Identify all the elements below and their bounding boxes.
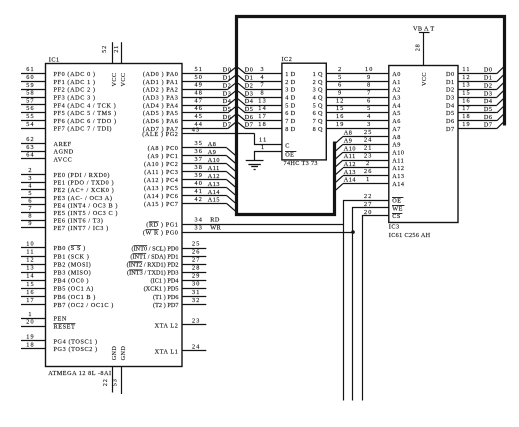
svg-text:17: 17 [258,113,267,120]
svg-text:6: 6 [367,97,371,104]
svg-text:(T1 ) PD6: (T1 ) PD6 [153,294,179,301]
IC3 pin name D3 [446,94,455,101]
IC1 pin 50 PA1 wire / net D1 bus entry [143,74,236,86]
svg-text:34: 34 [195,217,204,224]
IC2 pin name 3D [285,87,295,94]
IC1 pin 62 AREF wire [21,136,72,148]
svg-text:50: 50 [195,74,204,81]
svg-text:PE2 (AC+ / XCK0 ): PE2 (AC+ / XCK0 ) [54,187,115,194]
wire IC2 pin 12 5Q to IC3 A4 pin 6 [326,97,389,105]
net A9 wire to IC3 pin 24 [336,137,389,151]
svg-text:(A8 ) PC0: (A8 ) PC0 [148,145,179,152]
svg-text:2: 2 [366,160,370,167]
svg-text:20: 20 [364,209,373,216]
IC2 pin name C [285,143,290,150]
svg-text:35: 35 [195,140,204,147]
IC1 pin 2 PE0 wire [21,167,110,179]
svg-text:21: 21 [113,45,120,53]
IC1 pin 63 AGND wire [21,144,74,156]
IC2 pin name 6D [285,110,295,117]
IC1 pin 12 PB2 wire [21,257,91,269]
IC3 pin name A0 [392,71,401,78]
svg-text:21: 21 [364,144,373,151]
IC1 pin 16 PB6 wire [21,289,96,301]
IC1 pin 56 PF5 wire [21,105,117,117]
svg-text:22: 22 [364,193,373,200]
svg-text:17: 17 [462,105,471,112]
svg-text:20: 20 [26,318,35,325]
svg-text:A3: A3 [392,94,401,101]
IC1 pin 23 XTAL2 stub [155,317,207,329]
svg-text:(INT1 / SDA) PD1: (INT1 / SDA) PD1 [130,253,178,260]
IC1 pin 44 PA7 wire / net D7 bus entry [143,121,236,133]
IC1 pin 14 PB4 wire [21,273,89,285]
svg-text:D6: D6 [446,118,455,125]
svg-text:26: 26 [192,248,201,255]
svg-text:6: 6 [338,82,342,89]
svg-text:PF0 (ADC 0 ): PF0 (ADC 0 ) [54,71,96,78]
svg-text:A10: A10 [392,149,404,156]
svg-text:(A10 ) PC2: (A10 ) PC2 [144,161,179,168]
IC1 pin 51 PA0 wire / net D0 bus entry [143,66,236,78]
svg-text:PE4 (INT4 / OC3 B ): PE4 (INT4 / OC3 B ) [54,202,119,209]
svg-text:32: 32 [192,297,201,304]
IC1 pin 60 PF1 wire [21,74,96,86]
svg-text:A10: A10 [208,157,220,164]
svg-text:7: 7 [367,89,371,96]
IC2 part value 74HC373 [284,160,318,167]
svg-text:18: 18 [258,121,267,128]
svg-text:14: 14 [258,105,267,112]
IC1 pin 42 PC7 wire / net A15 bus entry [144,196,235,211]
svg-text:(RD ) PG1: (RD ) PG1 [146,222,178,229]
IC3 pin name A12 [392,165,404,172]
net A8 wire to IC3 pin 25 [336,129,389,143]
svg-text:GND: GND [111,346,118,361]
svg-text:D5: D5 [446,110,455,117]
IC2 pin name 7D [285,118,295,125]
IC1 pin 54 PF7 wire [21,121,112,133]
IC3 pin 12 D1 wire / bus entry [458,74,504,82]
svg-text:64: 64 [26,151,35,158]
svg-text:D7: D7 [446,126,455,133]
IC3 pin 18 D6 wire / bus entry [458,113,504,121]
svg-text:25: 25 [364,129,373,136]
svg-text:A5: A5 [392,110,401,117]
svg-text:9: 9 [28,220,32,227]
svg-text:63: 63 [26,144,35,151]
net A13 wire to IC3 pin 26 [336,168,389,182]
IC1 pin 25 PD0 stub [131,240,206,252]
svg-text:VB A T: VB A T [413,25,435,32]
svg-text:10: 10 [26,240,35,247]
IC3 pin name A9 [392,142,401,149]
svg-text:PE3 (AC- / OC3 A): PE3 (AC- / OC3 A) [54,195,113,202]
IC2 pin name 7Q [313,118,323,125]
IC3 pin name D7 [446,126,455,133]
svg-text:A14: A14 [392,181,404,188]
svg-text:15: 15 [462,89,471,96]
svg-text:D5: D5 [484,106,493,113]
svg-text:A7: A7 [392,126,401,133]
svg-text:A13: A13 [392,173,404,180]
IC1 pin 38 PC3 wire / net A11 bus entry [144,164,235,179]
svg-text:15: 15 [336,105,345,112]
IC1 pin 10 PB0 wire [21,240,86,252]
svg-text:A14: A14 [344,177,356,184]
svg-text:PB4 (OC0 ): PB4 (OC0 ) [54,278,90,285]
IC3 pin 11 D0 wire / bus entry [458,66,504,74]
svg-text:PB1 (SCK ): PB1 (SCK ) [54,253,90,260]
svg-text:D1: D1 [484,75,493,82]
svg-text:C: C [285,143,290,150]
svg-text:19: 19 [336,121,345,128]
svg-text:D2: D2 [446,87,455,94]
wire IC2 pin 16 7Q to IC3 A6 pin 4 [326,113,389,120]
svg-text:(T2 ) PD7: (T2 ) PD7 [153,302,179,309]
svg-text:A10: A10 [344,145,356,152]
svg-text:D0: D0 [484,67,493,74]
IC2 pin name 1Q [313,71,323,78]
IC1 pin 28 PD3 stub [127,265,206,277]
svg-text:3: 3 [260,66,264,73]
svg-text:VCC: VCC [120,73,127,87]
IC1 pin 20 <tspan wire [21,318,75,330]
svg-text:4 D: 4 D [285,94,295,101]
svg-text:(INT3 / TXD1) PD3: (INT3 / TXD1) PD3 [127,270,178,277]
IC1 pin 13 PB3 wire [21,265,91,277]
IC1 pin 26 PD1 stub [130,248,206,260]
svg-text:1 Q: 1 Q [313,71,323,78]
svg-text:PF2 (ADC 2 ): PF2 (ADC 2 ) [54,87,96,94]
junction WR / WE [351,230,355,234]
svg-text:5 D: 5 D [285,102,295,109]
IC1 pin 4 PE2 wire [21,182,114,194]
svg-text:D4: D4 [245,98,254,105]
IC3 part value IC61C256AH [389,232,431,239]
IC1 pin 41 PC6 wire / net A14 bus entry [144,188,235,203]
IC3 pin 19 D7 wire / bus entry [458,121,504,129]
IC1 pin 32 PD7 stub [153,297,206,309]
svg-text:A12: A12 [344,161,356,168]
svg-text:A4: A4 [392,102,401,109]
net D3 wire to IC2 4D pin 8 [238,89,282,97]
svg-text:22: 22 [102,378,109,386]
svg-text:AVCC: AVCC [54,156,73,163]
svg-text:D6: D6 [223,114,232,121]
net D4 wire to IC2 5D pin 13 [238,97,282,105]
net D6 wire to IC2 7D pin 17 [238,113,282,121]
svg-text:A12: A12 [208,173,220,180]
IC1 pin 27 PD2 stub [127,256,207,268]
svg-text:A9: A9 [392,142,401,149]
svg-text:RESET: RESET [54,323,76,330]
net D1 wire to IC2 2D pin 4 [238,74,282,82]
svg-text:D4: D4 [446,102,455,109]
IC1 pin 11 PB1 wire [21,248,89,260]
svg-text:WR: WR [210,224,221,231]
svg-text:42: 42 [195,196,204,203]
svg-text:37: 37 [195,156,204,163]
svg-text:AREF: AREF [54,141,72,148]
svg-text:(A11 ) PC3: (A11 ) PC3 [144,169,178,176]
IC3 pin name A4 [392,102,401,109]
wire IC2 pin 9 4Q to IC3 A3 pin 7 [326,89,389,97]
svg-text:ATMEGA 12 8L -8AI: ATMEGA 12 8L -8AI [48,370,111,377]
svg-text:(AD3 ) PA3: (AD3 ) PA3 [143,94,179,101]
svg-text:19: 19 [462,121,471,128]
svg-text:IC61 C256 AH: IC61 C256 AH [389,232,431,239]
ground [246,161,264,170]
svg-text:PE1 (PDO / TXD0 ): PE1 (PDO / TXD0 ) [54,180,115,187]
svg-text:D3: D3 [245,90,254,97]
IC2 pin name 5Q [313,102,323,109]
IC3 pin 15 D3 wire / bus entry [458,89,504,97]
svg-text:17: 17 [26,297,35,304]
svg-text:PB6 (OC1 B ): PB6 (OC1 B ) [54,294,96,301]
svg-text:11: 11 [26,248,34,255]
IC3 pin name A3 [392,94,401,101]
svg-text:4: 4 [260,74,264,81]
svg-text:3: 3 [28,175,32,182]
svg-text:A11: A11 [208,165,220,172]
IC1 pin 47 PA4 wire / net D4 bus entry [143,97,236,109]
IC1 pin 17 PB7 wire [21,297,114,309]
svg-text:51: 51 [195,66,204,73]
IC3 CS pin 20 wire [363,209,389,401]
IC1 pin 15 PB5 wire [21,281,94,293]
svg-text:23: 23 [364,152,373,159]
svg-text:4 Q: 4 Q [313,94,323,101]
svg-text:48: 48 [195,89,204,96]
svg-text:D0: D0 [245,67,254,74]
svg-text:D6: D6 [245,114,254,121]
IC1 pin 29 PD4 stub [151,273,207,285]
svg-text:OE: OE [285,152,294,159]
svg-text:PF6 (ADC 6 / TDO ): PF6 (ADC 6 / TDO ) [54,118,117,125]
svg-text:A8: A8 [392,134,401,141]
svg-text:19: 19 [26,333,35,340]
IC2 pin name 8Q [313,126,323,133]
svg-text:D4: D4 [484,98,493,105]
IC3 pin name A6 [392,118,401,125]
svg-text:PB3 (MISO): PB3 (MISO) [54,270,92,277]
svg-text:16: 16 [26,289,35,296]
svg-text:27: 27 [192,256,201,263]
IC3 pin name A1 [392,79,401,86]
svg-text:D6: D6 [484,114,493,121]
IC2 OE pin 1 wire to ground [255,144,282,160]
svg-text:6: 6 [28,197,32,204]
svg-text:56: 56 [26,105,35,112]
IC1 pin 18 PG3 wire [21,341,98,353]
svg-text:PE5 (INT5 / OC3 C ): PE5 (INT5 / OC3 C ) [54,210,119,217]
IC1 pin 55 PF6 wire [21,113,117,125]
svg-text:61: 61 [26,66,35,73]
IC1 pin 45 PA6 wire / net D6 bus entry [143,113,236,125]
svg-text:29: 29 [192,273,201,280]
svg-text:2 D: 2 D [285,79,295,86]
svg-text:7 D: 7 D [285,118,295,125]
svg-text:A13: A13 [208,181,220,188]
svg-text:24: 24 [364,137,373,144]
svg-text:D5: D5 [223,106,232,113]
IC3 pin name CS [392,213,402,220]
IC2 pin name 4D [285,94,295,101]
svg-text:1: 1 [28,311,32,318]
svg-text:PB2 (MOSI): PB2 (MOSI) [54,261,92,268]
svg-text:25: 25 [192,240,201,247]
IC3 WE pin 27 wire (to WR) [353,201,389,401]
svg-text:46: 46 [195,105,204,112]
svg-text:PF5 (ADC 5 / TMS ): PF5 (ADC 5 / TMS ) [54,110,117,117]
svg-text:D2: D2 [484,82,493,89]
svg-text:28: 28 [192,265,201,272]
svg-text:53: 53 [111,378,118,386]
svg-text:D0: D0 [446,71,455,78]
svg-text:D2: D2 [223,82,232,89]
IC1 pin 31 PD6 stub [153,289,206,301]
IC2 pin name 2D [285,79,295,86]
svg-text:D5: D5 [245,106,254,113]
svg-text:A8: A8 [344,130,353,137]
net A12 wire to IC3 pin 2 [336,160,389,174]
IC1 pin 36 PC1 wire / net A9 bus entry [148,148,236,163]
svg-text:D2: D2 [245,82,254,89]
IC1 pin 40 PC5 wire / net A13 bus entry [144,180,235,195]
svg-text:7: 7 [28,205,32,212]
svg-text:D1: D1 [223,75,232,82]
svg-text:(W R ) PG0: (W R ) PG0 [143,229,179,236]
svg-text:12: 12 [336,97,345,104]
svg-text:24: 24 [192,343,201,350]
svg-text:27: 27 [364,201,373,208]
svg-text:36: 36 [195,148,204,155]
IC2 pin name 8D [285,126,295,133]
IC1 pin 7 PE5 wire [21,205,118,217]
svg-text:6 Q: 6 Q [313,110,323,117]
IC3 pin name A10 [392,149,404,156]
svg-text:6 D: 6 D [285,110,295,117]
svg-text:(IC1 ) PD4: (IC1 ) PD4 [151,278,179,285]
IC1 pin 19 PG4 wire [21,333,98,345]
svg-text:12: 12 [462,74,471,81]
svg-text:A14: A14 [208,189,220,196]
svg-text:31: 31 [192,289,201,296]
svg-text:RD: RD [210,217,220,224]
IC3 VCC label [421,72,428,86]
svg-text:(AD4 ) PA4: (AD4 ) PA4 [143,102,179,109]
svg-text:A11: A11 [392,157,404,164]
IC2 pin name 2Q [313,79,323,86]
svg-text:8: 8 [28,213,32,220]
svg-text:30: 30 [192,281,201,288]
svg-text:47: 47 [195,97,204,104]
latch IC2 74HC373 body [282,56,327,160]
svg-text:54: 54 [26,121,35,128]
IC1 pin 8 PE6 wire [21,213,103,225]
svg-text:(AD1 ) PA1: (AD1 ) PA1 [143,79,179,86]
svg-text:PE0 (PDI / RXD0): PE0 (PDI / RXD0) [54,172,111,179]
IC1 VCC pin 52 stub [101,42,118,86]
IC2 pin name 6Q [313,110,323,117]
svg-text:57: 57 [26,97,35,104]
svg-text:26: 26 [364,168,373,175]
svg-text:8: 8 [367,82,371,89]
svg-text:A2: A2 [392,87,401,94]
svg-text:D1: D1 [446,79,455,86]
svg-text:WE: WE [392,205,403,212]
net D0 wire to IC2 1D pin 3 [238,66,282,74]
svg-text:PG3 (TOSC2 ): PG3 (TOSC2 ) [54,346,98,353]
svg-text:(INT0 / SCL) PD0: (INT0 / SCL) PD0 [131,245,178,252]
IC1 pin 24 XTAL1 stub [155,343,207,355]
wire IC2 pin 5 2Q to IC3 A1 pin 9 [326,74,389,82]
svg-text:(AD2 ) PA2: (AD2 ) PA2 [143,87,179,94]
IC3 pin name D2 [446,87,455,94]
svg-text:7: 7 [260,82,264,89]
svg-text:13: 13 [258,97,267,104]
wire IC2 pin 15 6Q to IC3 A5 pin 5 [326,105,389,112]
svg-text:5: 5 [338,74,342,81]
IC1 pin 43 PG2 ALE wire to IC2 C pin 11 [142,126,281,144]
svg-text:52: 52 [101,45,108,53]
svg-text:PB0 (S S ): PB0 (S S ) [54,245,86,252]
svg-text:AGND: AGND [54,149,74,156]
IC1 pin 64 AVCC wire [21,151,72,163]
svg-text:15: 15 [26,281,35,288]
svg-text:D3: D3 [446,94,455,101]
IC2 pin name 4Q [313,94,323,101]
svg-text:10: 10 [365,66,374,73]
svg-text:A6: A6 [392,118,401,125]
wire IC2 pin 19 8Q to IC3 A7 pin 3 [326,121,389,129]
svg-text:VCC: VCC [111,73,118,87]
svg-text:VCC: VCC [421,72,428,86]
IC3 pin name D1 [446,79,455,86]
svg-text:D7: D7 [484,122,493,129]
svg-text:38: 38 [195,164,204,171]
svg-text:(AD6 ) PA6: (AD6 ) PA6 [143,118,179,125]
svg-text:2 Q: 2 Q [313,79,323,86]
IC3 pin 17 D5 wire / bus entry [458,105,504,113]
IC1 pin 58 PF3 wire [21,90,96,102]
svg-text:74HC T3 73: 74HC T3 73 [284,160,318,167]
svg-text:13: 13 [26,265,35,272]
sram IC3 61C256AH body [389,66,458,231]
IC1 pin 34 PG1 RD wire to IC3 OE net [146,217,343,229]
svg-text:43: 43 [192,126,201,133]
svg-text:28: 28 [414,44,421,52]
svg-text:PB7 (OC2 / OC1C ): PB7 (OC2 / OC1C ) [54,302,114,309]
wire IC2 pin 2 1Q to IC3 A0 pin 10 [326,66,389,74]
svg-text:13: 13 [462,82,471,89]
IC1 pin 46 PA5 wire / net D5 bus entry [143,105,236,117]
IC3 pin name A5 [392,110,401,117]
svg-text:PB5 (OC1 A): PB5 (OC1 A) [54,286,94,293]
svg-text:18: 18 [26,341,35,348]
IC3 pin name OE [392,197,403,204]
IC1 VCC pin 21 stub [113,42,127,86]
svg-text:IC2: IC2 [282,56,293,63]
svg-text:D3: D3 [484,90,493,97]
net D7 wire to IC2 8D pin 18 [238,121,282,129]
IC1 pin 33 PG0 WR wire to IC3 WE net [143,224,353,236]
IC1 pin 59 PF2 wire [21,82,96,94]
svg-text:XTA L2: XTA L2 [155,322,179,329]
svg-text:(A9 ) PC1: (A9 ) PC1 [148,153,179,160]
svg-text:(AD0 ) PA0: (AD0 ) PA0 [143,71,179,78]
